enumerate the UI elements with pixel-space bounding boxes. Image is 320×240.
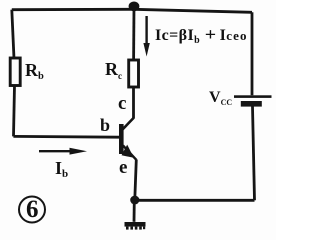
wire: top rail from left corner to right corner bbox=[12, 9, 252, 12]
wire: right vertical lower (battery to bottom-right corner) bbox=[253, 107, 255, 201]
wire: base horizontal (left corner to transistor base bar) bbox=[13, 135, 119, 139]
battery Vcc: short thick plate (-) bbox=[241, 101, 262, 107]
label Rb bbox=[25, 60, 44, 82]
transistor Q1: emitter stroke bbox=[123, 146, 136, 160]
current arrow Ib (right) bbox=[39, 148, 87, 155]
figure number circle 6 bbox=[19, 197, 45, 223]
transistor Q1: base bar bbox=[119, 124, 124, 154]
junction dot: top node (collector rail) bbox=[129, 2, 140, 12]
resistor Rb bbox=[10, 58, 20, 86]
battery Vcc: long plate (+) bbox=[234, 95, 272, 98]
wire: collector vertical upper (top junction to Rc) bbox=[132, 7, 135, 61]
transistor Q1: collector stroke bbox=[123, 118, 135, 130]
label figure number 6 bbox=[26, 196, 39, 224]
wire: emitter vertical (emitter to bottom junction) bbox=[135, 160, 137, 200]
wire: ground stem bbox=[133, 200, 136, 222]
wire: bottom rail (emitter junction to bottom-right corner) bbox=[135, 199, 255, 202]
wire: left vertical lower (Rb to base corner) bbox=[14, 86, 15, 137]
resistor Rc bbox=[129, 60, 139, 87]
wire: right vertical upper (top-right corner to battery) bbox=[251, 12, 254, 95]
label Rc bbox=[105, 59, 122, 81]
label b (base) bbox=[100, 115, 110, 136]
current arrow Ic (down) bbox=[143, 16, 149, 57]
label formula Ic = beta Ib + Iceo bbox=[155, 27, 248, 46]
ground symbol: bar bbox=[125, 222, 146, 227]
junction dot: bottom node (emitter / ground / bottom rail) bbox=[130, 196, 139, 205]
transistor Q1: emitter arrowhead bbox=[122, 145, 134, 158]
label Ib bbox=[55, 158, 68, 180]
label e (emitter) bbox=[119, 157, 127, 179]
label Vcc bbox=[209, 89, 232, 107]
label c (collector) bbox=[118, 93, 126, 115]
wire: collector vertical lower (Rc to collector diagonal) bbox=[132, 87, 135, 118]
wire: left vertical upper (top-left corner to Rb) bbox=[12, 10, 14, 59]
ground symbol: hatch teeth bbox=[126, 227, 145, 230]
